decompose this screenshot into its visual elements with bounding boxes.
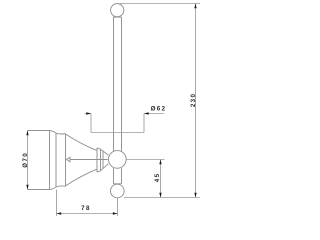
cone centerline <box>70 159 108 161</box>
plate ogee bottom <box>50 187 57 190</box>
dim 230 top extension line <box>120 3 200 5</box>
rod upper right line <box>121 17 123 151</box>
arrowhead dia70 top (points up) <box>26 131 28 136</box>
top collar <box>113 16 122 18</box>
neck bottom diagonal <box>101 164 109 171</box>
svg-text:Ø70: Ø70 <box>22 152 29 168</box>
wall plate bottom edge <box>28 189 50 191</box>
bottom ball finial <box>111 184 125 198</box>
bell top curve <box>66 134 98 151</box>
arrowhead dia62 left (points right) <box>86 112 91 114</box>
dim 230 bottom extension line <box>124 197 200 199</box>
rod lower left line <box>113 168 115 184</box>
middle ball joint <box>108 151 126 169</box>
dia62 right leader under text <box>144 113 164 115</box>
dia62 left arrow tail <box>85 113 92 115</box>
bottom collar <box>113 183 121 185</box>
wall plate face line <box>49 131 51 190</box>
dia62 right riser <box>143 114 145 133</box>
dia62 left riser <box>90 114 92 133</box>
rim-to-flare bottom connector <box>56 185 66 188</box>
bell bottom curve <box>66 169 98 186</box>
plate rim line <box>55 133 57 187</box>
arrowhead dia62 right (points left) <box>144 112 149 114</box>
rod lower right line <box>121 168 123 184</box>
dim 45 line <box>160 160 162 198</box>
cone cusp triangle <box>66 157 70 162</box>
svg-text:230: 230 <box>190 93 197 108</box>
arrowhead 230 bottom (points down) <box>194 193 196 198</box>
svg-text:Ø62: Ø62 <box>151 106 167 113</box>
arrowhead dia70 bottom (points down) <box>26 185 28 190</box>
dim 78 left extension line <box>56 190 58 216</box>
arrowhead 230 top (points up) <box>194 4 196 9</box>
dim 78 right extension line <box>117 198 119 216</box>
dim 230 line <box>195 4 197 198</box>
collar ring outer <box>96 148 98 172</box>
plate ogee top <box>50 131 57 134</box>
dia62 connector line <box>91 132 144 134</box>
rim-to-flare top connector <box>56 132 66 135</box>
arrowhead 78 right (points right) <box>113 212 118 214</box>
rod upper left line <box>113 17 115 151</box>
wall plate top edge <box>28 130 50 132</box>
svg-text:78: 78 <box>81 205 91 212</box>
collar top connector <box>97 148 101 149</box>
arrowhead 45 top (points up) <box>159 160 161 165</box>
bell flare line <box>65 134 67 187</box>
top ball finial <box>111 4 124 17</box>
neck ring <box>102 152 104 169</box>
svg-text:45: 45 <box>154 173 161 183</box>
collar bottom connector <box>97 171 101 172</box>
dim 78 line <box>57 213 118 215</box>
arrowhead 78 left (points left) <box>57 212 62 214</box>
arrowhead 45 bottom (points down) <box>159 193 161 198</box>
dia70 dim line on plate back edge <box>27 131 29 190</box>
collar ring inner <box>100 149 102 171</box>
dim 45 top extension line <box>126 159 164 161</box>
neck top diagonal <box>101 149 109 155</box>
